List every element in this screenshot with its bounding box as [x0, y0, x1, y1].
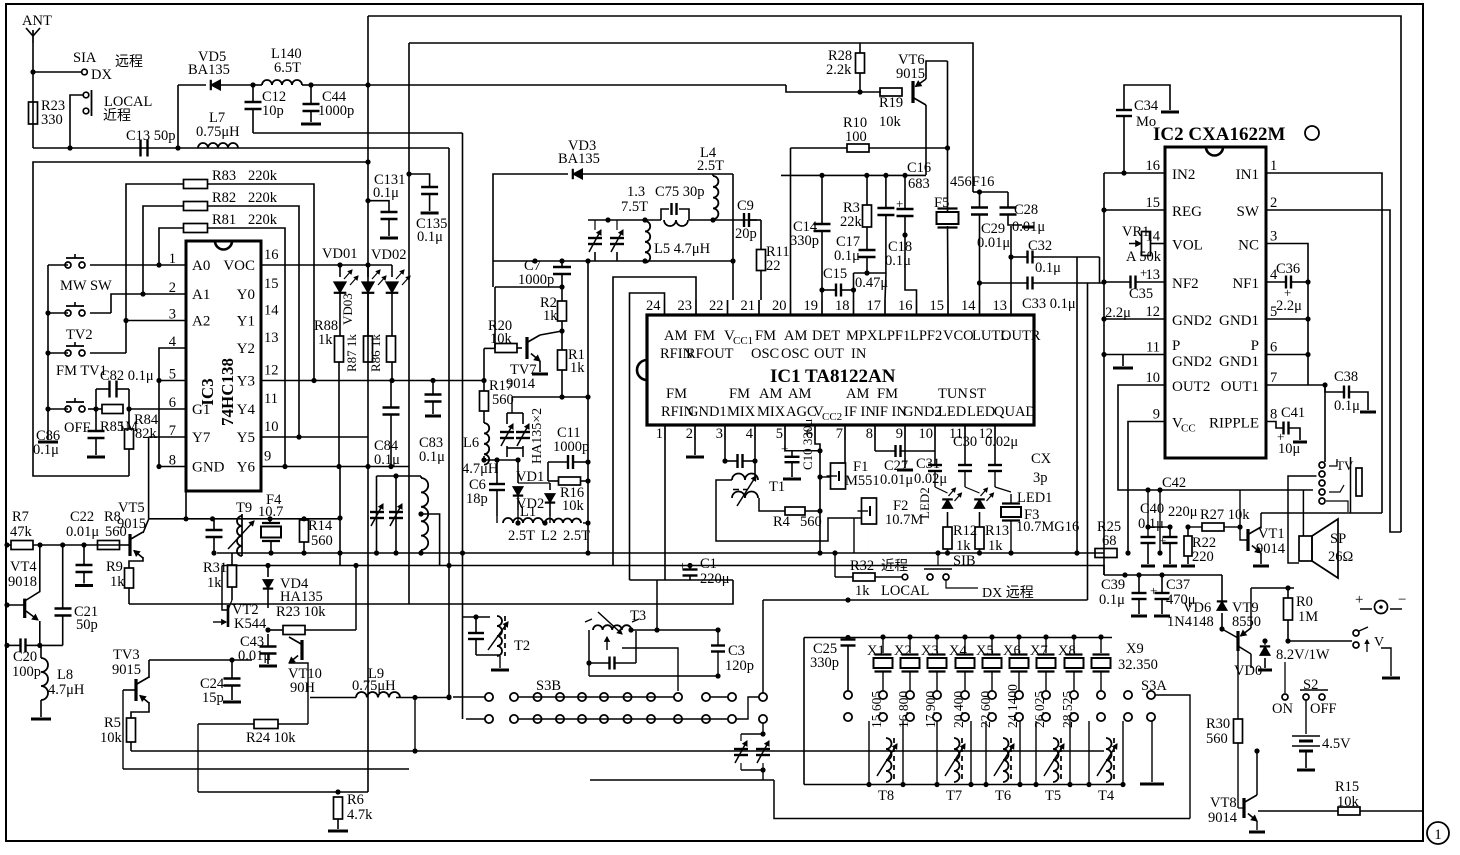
svg-text:IN1: IN1 [1236, 167, 1259, 183]
svg-text:A1: A1 [192, 287, 210, 303]
svg-text:68: 68 [1102, 533, 1117, 549]
svg-text:+: + [781, 441, 788, 456]
svg-text:9015: 9015 [117, 516, 146, 532]
svg-text:SP: SP [1330, 531, 1346, 547]
svg-text:10μ: 10μ [1278, 441, 1301, 457]
svg-text:20p: 20p [735, 226, 757, 242]
svg-text:6: 6 [1270, 340, 1277, 356]
svg-text:QUAD: QUAD [994, 404, 1036, 420]
svg-text:R0: R0 [1296, 594, 1313, 610]
svg-text:0.1μ: 0.1μ [33, 442, 59, 458]
svg-text:10k: 10k [100, 730, 123, 746]
svg-text:C39: C39 [1101, 577, 1125, 593]
svg-text:9: 9 [896, 426, 903, 442]
svg-text:FM: FM [729, 386, 750, 402]
svg-text:T4: T4 [1098, 788, 1115, 804]
svg-text:GND2: GND2 [903, 404, 942, 420]
svg-text:9: 9 [264, 449, 271, 465]
svg-text:C13 50p: C13 50p [126, 128, 176, 144]
svg-text:22: 22 [766, 258, 781, 274]
svg-text:R19: R19 [879, 95, 903, 111]
svg-text:683: 683 [908, 176, 930, 192]
svg-text:BA135: BA135 [558, 151, 600, 167]
svg-text:K544: K544 [234, 616, 267, 632]
svg-text:0.47μ: 0.47μ [855, 275, 888, 291]
svg-text:X4: X4 [949, 643, 967, 659]
svg-text:4.7μH: 4.7μH [48, 682, 85, 698]
svg-text:BA135: BA135 [188, 62, 230, 78]
svg-text:C82 0.1μ: C82 0.1μ [100, 368, 154, 384]
svg-text:C1: C1 [700, 556, 717, 572]
svg-text:9014: 9014 [1208, 810, 1238, 826]
svg-text:0.02μ: 0.02μ [914, 471, 947, 487]
svg-text:DET: DET [812, 328, 840, 344]
svg-text:DX 远程: DX 远程 [982, 585, 1034, 601]
svg-text:0.01μ: 0.01μ [880, 472, 913, 488]
svg-text:AM: AM [664, 328, 687, 344]
svg-text:1k: 1k [956, 538, 971, 554]
svg-text:VOC: VOC [223, 258, 255, 274]
svg-text:AM: AM [846, 386, 869, 402]
svg-text:X3: X3 [921, 643, 939, 659]
svg-text:OSC: OSC [781, 346, 809, 362]
svg-text:R87 1k: R87 1k [344, 334, 359, 372]
svg-text:2.5T: 2.5T [508, 528, 535, 544]
svg-text:82k: 82k [135, 426, 158, 442]
svg-text:14: 14 [961, 298, 976, 314]
svg-text:21: 21 [741, 298, 756, 314]
svg-text:C10 330μ: C10 330μ [800, 419, 815, 470]
svg-text:Y6: Y6 [237, 460, 256, 476]
svg-text:OFF: OFF [64, 420, 91, 436]
svg-text:220μ: 220μ [1168, 504, 1198, 520]
svg-text:9015: 9015 [112, 662, 141, 678]
svg-text:CC: CC [1181, 423, 1196, 435]
svg-text:LED: LED [938, 404, 966, 420]
svg-text:220μ: 220μ [700, 571, 730, 587]
svg-text:NF2: NF2 [1172, 276, 1199, 292]
svg-text:7: 7 [836, 426, 843, 442]
svg-text:560: 560 [311, 533, 333, 549]
svg-text:15p: 15p [202, 690, 224, 706]
svg-text:MPX: MPX [846, 328, 878, 344]
svg-text:0.1μ: 0.1μ [885, 253, 911, 269]
svg-text:220k: 220k [248, 168, 278, 184]
svg-text:+: + [1355, 592, 1363, 608]
svg-text:330: 330 [41, 112, 63, 128]
svg-text:R27 10k: R27 10k [1200, 507, 1250, 523]
svg-text:1: 1 [656, 426, 663, 442]
svg-text:LOCAL: LOCAL [104, 94, 152, 110]
svg-text:1: 1 [1434, 827, 1442, 843]
svg-text:R24 10k: R24 10k [246, 730, 296, 746]
svg-text:L2: L2 [541, 528, 557, 544]
svg-text:7.5T: 7.5T [621, 199, 648, 215]
svg-text:VT1: VT1 [1258, 526, 1285, 542]
svg-text:24: 24 [646, 298, 661, 314]
svg-text:3: 3 [716, 426, 723, 442]
svg-text:GND1: GND1 [1219, 313, 1259, 329]
svg-text:P: P [1172, 338, 1180, 354]
svg-text:1k: 1k [570, 360, 585, 376]
svg-text:GND1: GND1 [1219, 354, 1259, 370]
svg-text:C28: C28 [1014, 202, 1038, 218]
svg-text:HA135×2: HA135×2 [530, 408, 545, 464]
svg-text:18: 18 [835, 298, 850, 314]
svg-text:M551: M551 [845, 473, 880, 489]
svg-text:LPF2: LPF2 [910, 328, 942, 344]
svg-text:15: 15 [264, 276, 279, 292]
svg-text:C42: C42 [1162, 475, 1186, 491]
svg-text:C38: C38 [1334, 369, 1358, 385]
svg-text:1000p: 1000p [518, 272, 554, 288]
svg-text:1: 1 [1270, 158, 1277, 174]
svg-text:TV2: TV2 [66, 327, 93, 343]
svg-text:+: + [1140, 265, 1147, 280]
svg-text:0.1μ: 0.1μ [419, 449, 445, 465]
svg-text:C30: C30 [953, 434, 977, 450]
svg-text:R14: R14 [308, 518, 333, 534]
svg-text:T8: T8 [878, 788, 894, 804]
svg-text:100: 100 [845, 129, 867, 145]
svg-text:9015: 9015 [896, 66, 925, 82]
svg-text:C41: C41 [1281, 405, 1305, 421]
svg-text:74HC138: 74HC138 [218, 358, 237, 426]
svg-text:X5: X5 [976, 643, 994, 659]
svg-text:R32: R32 [850, 558, 874, 574]
svg-text:C35: C35 [1129, 286, 1153, 302]
svg-text:NF1: NF1 [1232, 276, 1259, 292]
svg-text:0.1μ: 0.1μ [1334, 398, 1360, 414]
svg-text:T5: T5 [1045, 788, 1061, 804]
svg-text:0.01μ: 0.01μ [977, 235, 1010, 251]
svg-text:GND2: GND2 [1172, 313, 1212, 329]
svg-text:2: 2 [1270, 195, 1277, 211]
svg-text:AM: AM [759, 386, 782, 402]
svg-text:GND: GND [192, 460, 225, 476]
svg-text:2.2k: 2.2k [826, 62, 852, 78]
svg-text:17: 17 [867, 298, 882, 314]
svg-text:6.5T: 6.5T [274, 60, 301, 76]
svg-text:DX: DX [91, 67, 112, 83]
svg-text:AM: AM [784, 328, 807, 344]
svg-text:Y7: Y7 [192, 430, 211, 446]
svg-text:R7: R7 [12, 509, 29, 525]
svg-text:R30: R30 [1206, 716, 1230, 732]
svg-text:11: 11 [1146, 340, 1160, 356]
svg-text:2: 2 [686, 426, 693, 442]
svg-text:7: 7 [169, 423, 176, 439]
svg-text:23: 23 [678, 298, 693, 314]
svg-text:13: 13 [993, 298, 1008, 314]
svg-text:Y5: Y5 [237, 430, 255, 446]
svg-text:R5: R5 [104, 715, 121, 731]
svg-text:19: 19 [804, 298, 819, 314]
svg-text:RIPPLE: RIPPLE [1209, 416, 1259, 432]
svg-text:330p: 330p [810, 655, 839, 671]
svg-text:Y1: Y1 [237, 314, 255, 330]
svg-text:1k: 1k [207, 575, 222, 591]
svg-text:4.7μH: 4.7μH [462, 461, 499, 477]
svg-text:4.5V: 4.5V [1322, 736, 1351, 752]
svg-text:+: + [679, 558, 686, 573]
svg-text:100p: 100p [12, 664, 41, 680]
svg-text:1.3: 1.3 [627, 184, 645, 200]
svg-text:A2: A2 [192, 314, 210, 330]
svg-text:SW: SW [1237, 204, 1260, 220]
svg-text:OUT2: OUT2 [1172, 379, 1210, 395]
svg-text:OUT: OUT [814, 346, 844, 362]
svg-text:SIA: SIA [73, 50, 97, 66]
svg-text:11: 11 [264, 391, 278, 407]
svg-text:X1: X1 [867, 643, 885, 659]
svg-text:C36: C36 [1276, 261, 1300, 277]
svg-text:P: P [1251, 338, 1259, 354]
svg-text:R4: R4 [773, 514, 791, 530]
svg-text:1k: 1k [543, 308, 558, 324]
svg-text:16: 16 [1146, 158, 1161, 174]
svg-text:R83: R83 [212, 168, 236, 184]
svg-text:X2: X2 [894, 643, 912, 659]
svg-text:R81: R81 [212, 212, 236, 228]
svg-text:10: 10 [264, 419, 279, 435]
svg-text:R9: R9 [106, 559, 123, 575]
svg-text:13: 13 [1146, 267, 1161, 283]
svg-text:T2: T2 [514, 638, 530, 654]
svg-text:FM: FM [877, 386, 898, 402]
svg-text:3p: 3p [1033, 470, 1048, 486]
svg-text:0.1μ: 0.1μ [373, 185, 399, 201]
svg-text:2.5T: 2.5T [697, 158, 724, 174]
svg-text:SIB: SIB [953, 553, 976, 569]
svg-text:1M: 1M [1298, 609, 1318, 625]
svg-text:220: 220 [1192, 549, 1214, 565]
svg-text:ST: ST [969, 386, 986, 402]
svg-text:LOCAL: LOCAL [881, 583, 929, 599]
svg-text:4.7k: 4.7k [347, 807, 373, 823]
svg-text:X7: X7 [1030, 643, 1048, 659]
svg-text:VCO: VCO [943, 328, 974, 344]
svg-text:1000p: 1000p [318, 103, 354, 119]
svg-text:MIX: MIX [727, 404, 756, 420]
svg-text:0.1μ: 0.1μ [417, 229, 443, 245]
svg-text:A0: A0 [192, 258, 210, 274]
svg-text:FM: FM [755, 328, 776, 344]
svg-text:2.5T: 2.5T [563, 528, 590, 544]
svg-text:ANT: ANT [22, 13, 52, 29]
svg-text:C9: C9 [737, 198, 754, 214]
svg-text:Y4: Y4 [237, 402, 256, 418]
svg-text:Y3: Y3 [237, 374, 255, 390]
svg-text:16: 16 [898, 298, 913, 314]
svg-text:0.02μ: 0.02μ [985, 434, 1018, 450]
svg-text:20: 20 [772, 298, 787, 314]
svg-text:MIX: MIX [757, 404, 786, 420]
svg-text:1k: 1k [988, 538, 1003, 554]
svg-text:R15: R15 [1335, 779, 1359, 795]
svg-text:330p: 330p [790, 233, 819, 249]
svg-text:0.1μ: 0.1μ [374, 452, 400, 468]
svg-text:C15: C15 [823, 266, 847, 282]
svg-text:VT8: VT8 [1210, 795, 1237, 811]
svg-text:C75 30p: C75 30p [655, 184, 705, 200]
svg-text:32.350: 32.350 [1118, 657, 1158, 673]
svg-text:50p: 50p [76, 617, 98, 633]
svg-text:TUN: TUN [938, 386, 968, 402]
svg-text:MW SW: MW SW [60, 278, 112, 294]
svg-text:ON: ON [1272, 701, 1293, 717]
svg-text:IC1 TA8122AN: IC1 TA8122AN [770, 366, 896, 387]
svg-text:IF IN: IF IN [844, 404, 876, 420]
svg-text:4: 4 [746, 426, 754, 442]
svg-text:560: 560 [492, 392, 514, 408]
svg-text:120p: 120p [725, 658, 754, 674]
svg-text:C33 0.1μ: C33 0.1μ [1022, 296, 1076, 312]
svg-text:REG: REG [1172, 204, 1202, 220]
svg-text:R6: R6 [347, 792, 364, 808]
svg-text:FM: FM [666, 386, 687, 402]
svg-text:LED: LED [967, 404, 995, 420]
svg-text:LPF1: LPF1 [878, 328, 910, 344]
svg-text:14: 14 [264, 303, 279, 319]
svg-text:456F16: 456F16 [950, 174, 994, 190]
svg-text:10p: 10p [262, 103, 284, 119]
svg-text:T6: T6 [995, 788, 1011, 804]
svg-text:R23 10k: R23 10k [276, 604, 326, 620]
svg-text:8550: 8550 [1232, 614, 1261, 630]
svg-text:0.01μ: 0.01μ [238, 648, 271, 664]
svg-text:8: 8 [866, 426, 873, 442]
svg-text:0.1μ: 0.1μ [1035, 260, 1061, 276]
svg-text:AM: AM [788, 386, 811, 402]
svg-text:10k: 10k [879, 114, 902, 130]
svg-text:13: 13 [264, 330, 279, 346]
svg-text:C34: C34 [1134, 98, 1159, 114]
svg-text:1000p: 1000p [553, 439, 589, 455]
svg-text:12: 12 [1146, 304, 1161, 320]
svg-text:560: 560 [800, 514, 822, 530]
svg-text:VD02: VD02 [371, 247, 406, 263]
svg-text:S3B: S3B [536, 678, 561, 694]
svg-text:2.2μ: 2.2μ [1276, 298, 1302, 314]
svg-text:10.7MG16: 10.7MG16 [1016, 519, 1079, 535]
svg-text:X6: X6 [1003, 643, 1021, 659]
svg-text:0.1μ: 0.1μ [1099, 592, 1125, 608]
svg-text:GND1: GND1 [688, 404, 727, 420]
svg-text:Y2: Y2 [237, 341, 255, 357]
svg-text:220k: 220k [248, 212, 278, 228]
svg-text:近程: 近程 [103, 108, 131, 124]
svg-text:L6: L6 [463, 435, 479, 451]
svg-text:T1: T1 [769, 479, 785, 495]
svg-text:15: 15 [1146, 195, 1161, 211]
svg-text:12: 12 [264, 363, 279, 379]
svg-text:IN: IN [851, 346, 867, 362]
svg-text:10: 10 [919, 426, 934, 442]
svg-text:0.1μ: 0.1μ [834, 248, 860, 264]
svg-text:C37: C37 [1166, 577, 1190, 593]
svg-text:X8: X8 [1058, 643, 1076, 659]
svg-text:近程: 近程 [881, 558, 908, 573]
svg-text:IN2: IN2 [1172, 167, 1195, 183]
svg-text:560: 560 [1206, 731, 1228, 747]
svg-text:X9: X9 [1126, 641, 1144, 657]
svg-text:C22: C22 [70, 509, 94, 525]
svg-text:G1: G1 [192, 402, 210, 418]
svg-text:1k: 1k [318, 332, 333, 348]
svg-text:R86 1k: R86 1k [368, 334, 383, 372]
svg-text:47k: 47k [10, 524, 33, 540]
svg-text:22: 22 [709, 298, 724, 314]
svg-text:OUTR: OUTR [1001, 328, 1041, 344]
svg-text:RFOUT: RFOUT [686, 346, 734, 362]
svg-text:5: 5 [776, 426, 783, 442]
svg-text:9: 9 [1153, 407, 1160, 423]
svg-text:R12: R12 [953, 523, 977, 539]
svg-text:VD01: VD01 [322, 246, 357, 262]
svg-text:T7: T7 [946, 788, 962, 804]
svg-text:1k: 1k [855, 583, 870, 599]
svg-text:GND2: GND2 [1172, 354, 1212, 370]
svg-text:OFF: OFF [1310, 701, 1337, 717]
svg-text:VD03: VD03 [340, 293, 355, 325]
svg-text:T9: T9 [236, 500, 252, 516]
svg-text:0.75μH: 0.75μH [196, 124, 240, 140]
svg-text:0.01μ: 0.01μ [66, 524, 99, 540]
svg-text:+: + [1150, 583, 1157, 598]
svg-text:CX: CX [1031, 451, 1052, 467]
svg-text:1k: 1k [110, 574, 125, 590]
svg-text:8.2V/1W: 8.2V/1W [1276, 647, 1330, 663]
svg-text:LED2: LED2 [917, 487, 932, 519]
svg-text:A 50k: A 50k [1126, 249, 1162, 265]
svg-text:R82: R82 [212, 190, 236, 206]
svg-text:10k: 10k [490, 331, 513, 347]
svg-text:15: 15 [930, 298, 945, 314]
svg-text:R13: R13 [985, 523, 1009, 539]
svg-text:3: 3 [1270, 229, 1277, 245]
svg-text:Mo: Mo [1136, 114, 1156, 130]
svg-text:26Ω: 26Ω [1328, 549, 1354, 565]
svg-text:C16: C16 [907, 160, 931, 176]
svg-text:VT5: VT5 [118, 500, 145, 516]
svg-text:9018: 9018 [8, 574, 37, 590]
svg-text:OUT1: OUT1 [1221, 379, 1259, 395]
svg-text:8: 8 [1270, 407, 1277, 423]
svg-text:10k: 10k [562, 498, 585, 514]
svg-text:22k: 22k [840, 214, 863, 230]
svg-text:VT4: VT4 [10, 559, 37, 575]
svg-text:7: 7 [1270, 370, 1277, 386]
svg-text:18p: 18p [466, 491, 488, 507]
svg-text:C3: C3 [728, 643, 745, 659]
svg-text:220k: 220k [248, 190, 278, 206]
svg-text:16: 16 [264, 247, 279, 263]
svg-text:1N4148: 1N4148 [1167, 614, 1214, 630]
svg-text:−: − [1398, 592, 1406, 608]
svg-text:10: 10 [1146, 370, 1161, 386]
svg-text:HA135: HA135 [280, 589, 323, 605]
svg-text:VOL: VOL [1172, 238, 1203, 254]
svg-text:LED1: LED1 [1017, 490, 1052, 506]
svg-text:TV3: TV3 [113, 647, 140, 663]
svg-text:IC2 CXA1622M: IC2 CXA1622M [1153, 124, 1286, 145]
svg-text:CC2: CC2 [822, 411, 842, 423]
svg-text:L5 4.7μH: L5 4.7μH [654, 241, 711, 257]
svg-text:远程: 远程 [115, 54, 143, 70]
svg-text:Y0: Y0 [237, 287, 255, 303]
svg-text:FM: FM [694, 328, 715, 344]
